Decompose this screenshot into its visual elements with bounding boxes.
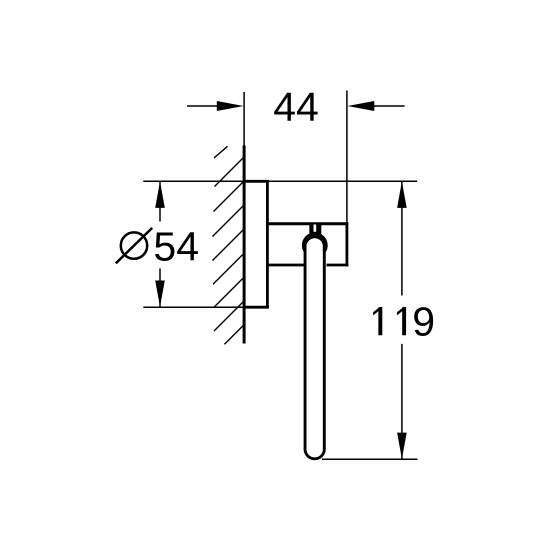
dim 54 arrow up	[155, 181, 165, 208]
svg-text:9: 9	[412, 298, 435, 344]
dim 44 arrow right	[348, 101, 375, 111]
dim 54 arrow down	[155, 281, 165, 308]
dim 44 dimension line	[187, 105, 405, 107]
dim 119 arrow up	[397, 181, 407, 208]
holder arm	[267, 222, 348, 266]
dim 119 dimension line	[401, 181, 403, 459]
dim 44 arrow left	[217, 101, 244, 111]
wall hatching	[213, 146, 245, 344]
dim 119 arrow down	[397, 433, 407, 460]
dim 44 extension line right	[346, 91, 348, 223]
svg-text:44: 44	[273, 84, 319, 130]
pivot boss arc	[302, 232, 328, 252]
mounting plate (escutcheon side view)	[244, 180, 269, 309]
svg-text:54: 54	[153, 223, 199, 269]
wall line	[243, 146, 246, 344]
dim 119 label digit 1 (first)	[373, 307, 382, 335]
dim 54 dimension line	[159, 181, 161, 307]
pivot pin	[309, 225, 321, 237]
dim 119 bottom extension line	[322, 458, 418, 460]
diameter symbol	[121, 232, 147, 258]
dim 54 bottom extension line	[143, 306, 244, 308]
dim 119 label digit 1 (second)	[397, 307, 406, 335]
top extension line (shared)	[143, 180, 417, 182]
dim 44 extension line left (wall top)	[243, 92, 245, 146]
paper roll holder ring (side view)	[305, 243, 324, 459]
